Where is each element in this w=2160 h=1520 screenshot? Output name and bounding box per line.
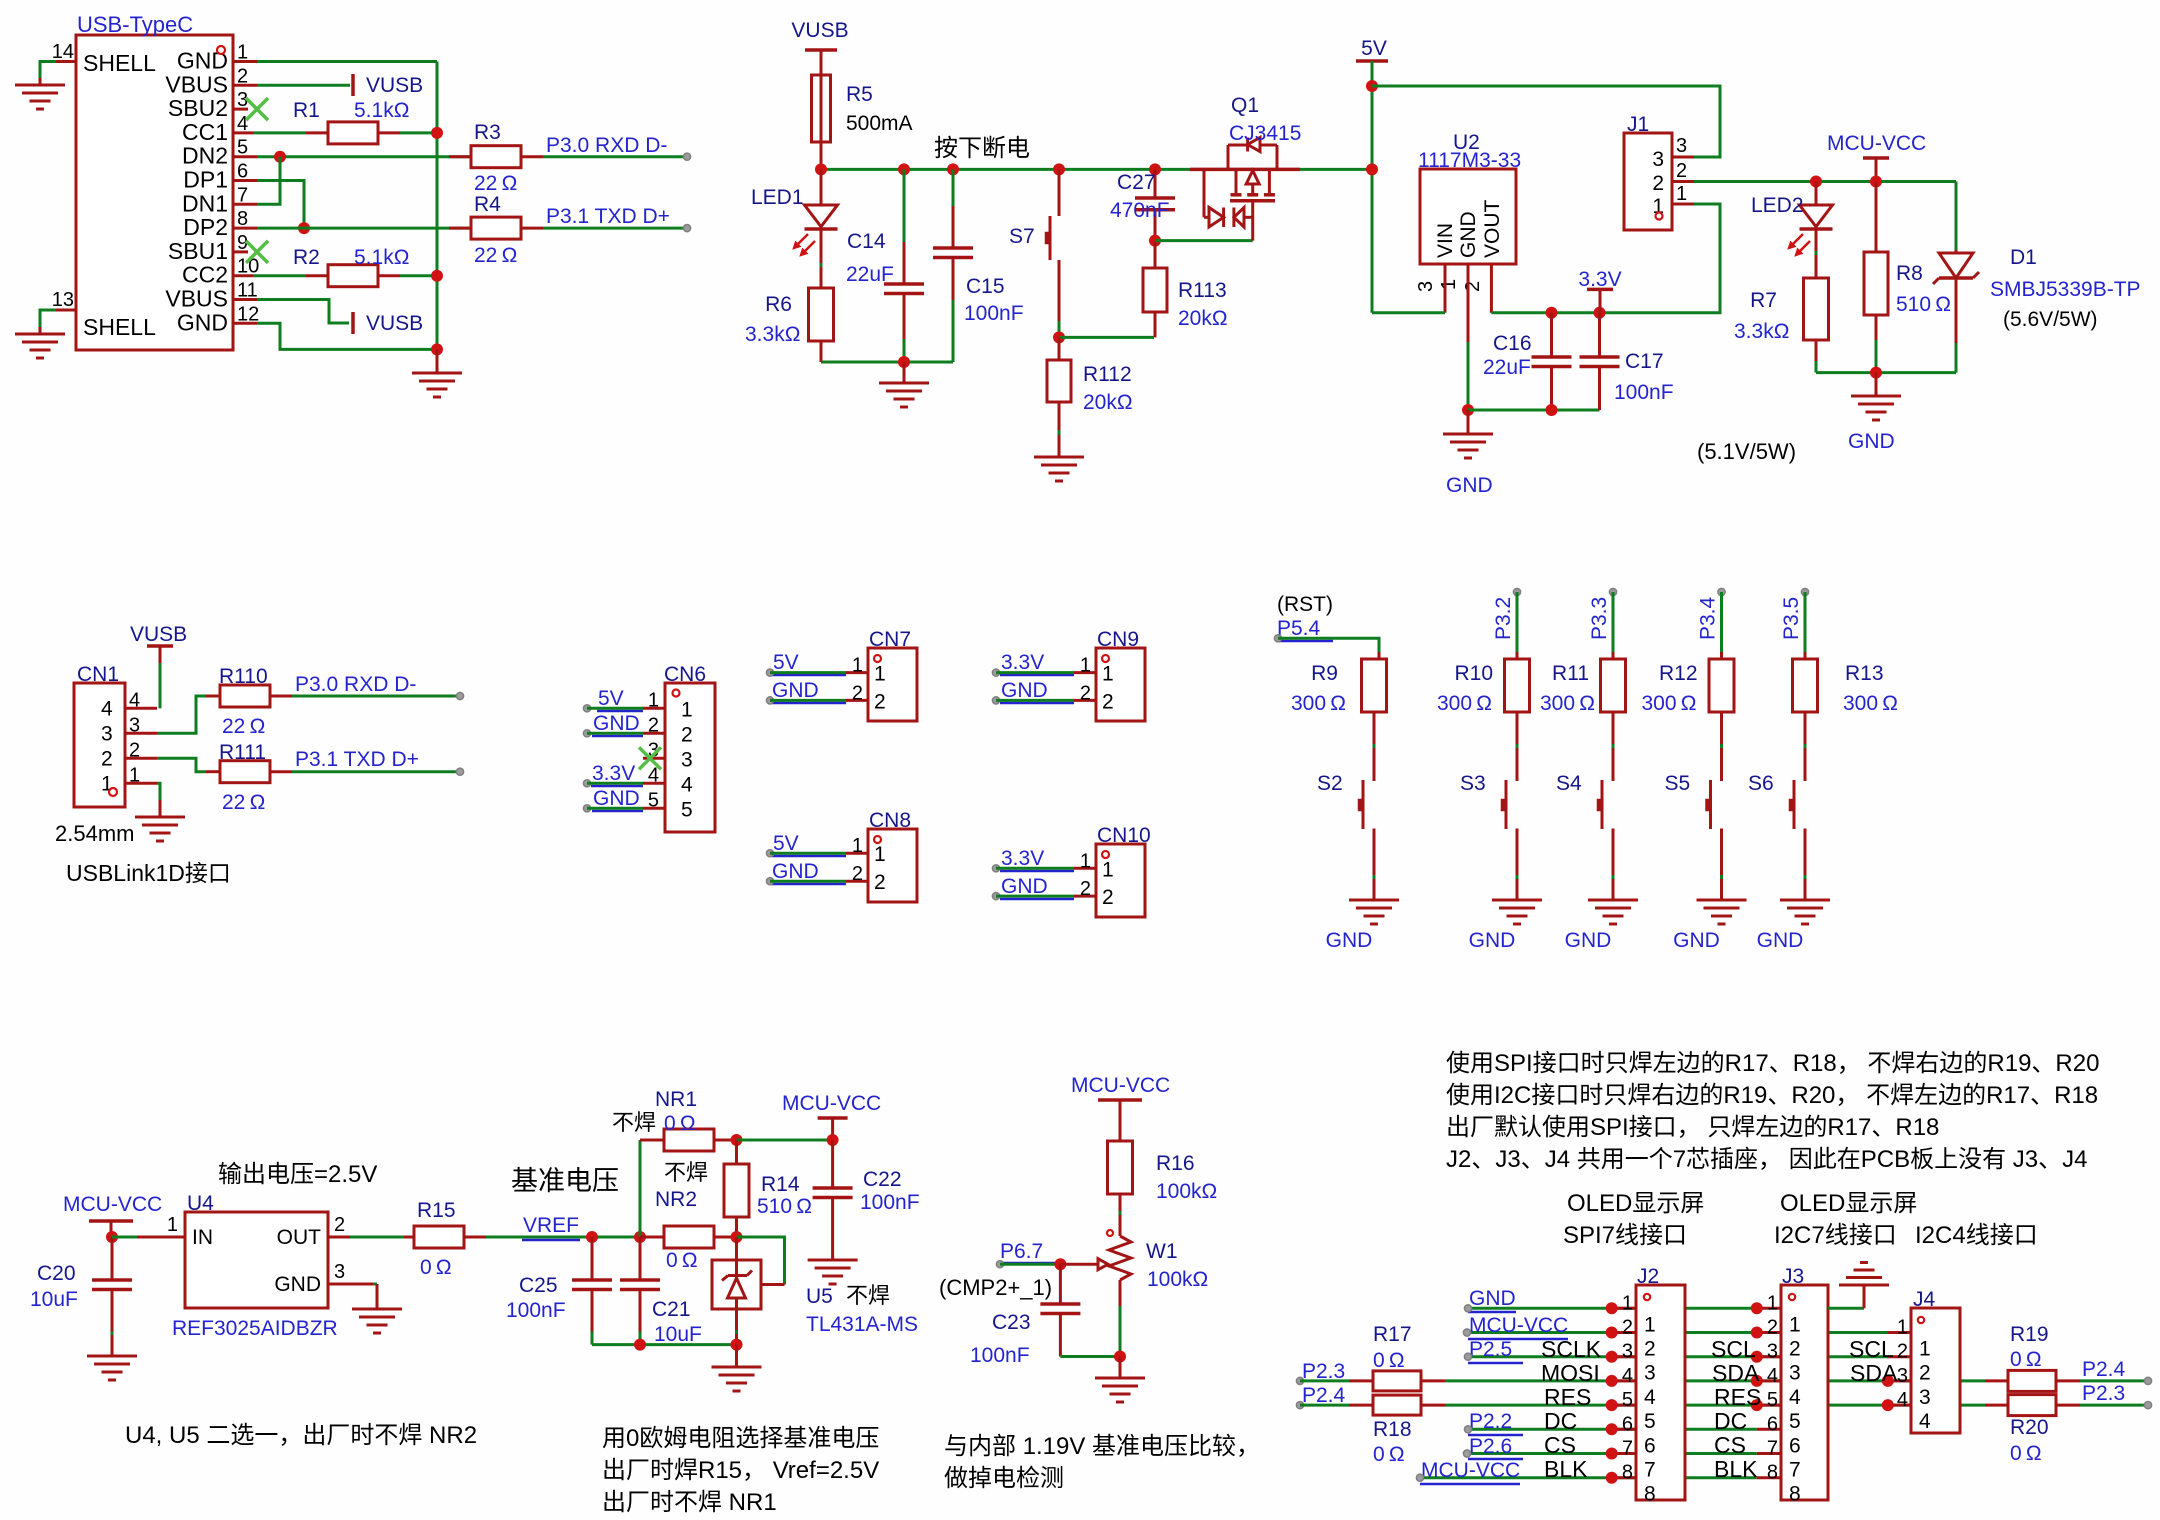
svg-text:2: 2 [1676, 160, 1687, 182]
svg-text:输出电压=2.5V: 输出电压=2.5V [218, 1161, 377, 1188]
svg-text:5.1kΩ: 5.1kΩ [354, 246, 409, 269]
svg-text:4: 4 [1897, 1389, 1908, 1411]
svg-text:SDA: SDA [1850, 1360, 1898, 1386]
svg-text:R3: R3 [474, 121, 501, 144]
svg-text:0 Ω: 0 Ω [664, 1112, 696, 1135]
ground below C22 [808, 1260, 858, 1284]
bottom rail C16/C17 [1468, 409, 1600, 412]
resistor R110 [206, 665, 292, 738]
svg-text:LED1: LED1 [751, 186, 804, 209]
wire CN8 pin1 [770, 852, 846, 855]
svg-text:100kΩ: 100kΩ [1147, 1268, 1208, 1291]
svg-text:3.3V: 3.3V [1001, 847, 1044, 870]
svg-text:5: 5 [1622, 1389, 1633, 1411]
wire R7 to bottom [1815, 340, 1818, 373]
svg-text:3: 3 [1415, 281, 1437, 292]
junction 3.3V at C16 [1546, 307, 1558, 319]
wire J1 pin2 to MCU-VCC rail [1694, 180, 1956, 183]
push switch S7 [1009, 169, 1059, 337]
capacitor C22 [813, 1140, 920, 1260]
svg-text:2: 2 [1080, 878, 1091, 900]
note 0-ohm selection line3 [602, 1489, 777, 1516]
svg-text:1: 1 [1622, 1292, 1633, 1314]
svg-text:300 Ω: 300 Ω [1291, 692, 1346, 715]
svg-text:U4: U4 [187, 1192, 214, 1215]
svg-text:3: 3 [101, 722, 113, 745]
wire CN7 pin2 [770, 699, 846, 702]
svg-text:1: 1 [1080, 655, 1091, 677]
svg-text:NR1: NR1 [655, 1088, 697, 1111]
svg-text:R110: R110 [219, 665, 268, 688]
resistor R113 [1143, 241, 1228, 338]
svg-text:3: 3 [1767, 1341, 1778, 1363]
svg-text:10uF: 10uF [654, 1323, 702, 1346]
transistor Q1 CJ3415 PMOS [1190, 94, 1301, 241]
wire P3.3 to R11 [1612, 592, 1615, 659]
wire U2 GND down [1467, 342, 1470, 410]
junction bottom at R8 [1870, 367, 1882, 379]
svg-text:470nF: 470nF [1110, 199, 1170, 222]
svg-text:CN10: CN10 [1097, 824, 1151, 847]
resistor R11 [1540, 659, 1626, 715]
svg-text:3: 3 [334, 1261, 345, 1283]
note 0-ohm selection line1 [602, 1425, 879, 1452]
connector J2 [1612, 1265, 1685, 1506]
capacitor C15 [933, 169, 1024, 362]
svg-text:C23: C23 [992, 1311, 1031, 1334]
net label GND at CN10 pin2 [992, 875, 1074, 900]
svg-text:用0欧姆电阻选择基准电压: 用0欧姆电阻选择基准电压 [602, 1425, 879, 1452]
junctions at J2 pins [1606, 1302, 1618, 1483]
switch S6 [1748, 712, 1830, 952]
wire CN7 pin1 [770, 671, 846, 674]
svg-text:4: 4 [1919, 1410, 1931, 1433]
connector CN9 [1074, 628, 1145, 721]
svg-text:3: 3 [1897, 1365, 1908, 1387]
svg-text:5V: 5V [598, 687, 624, 710]
IC U5 TL431A-MS [712, 1237, 918, 1345]
resistor R8 [1864, 182, 1951, 317]
ground below R8 [1848, 373, 1901, 453]
wire CN9 pin2 [996, 699, 1074, 702]
svg-text:不焊: 不焊 [846, 1283, 890, 1308]
no-connect X on pin 9 SBU1 [246, 241, 268, 263]
resistor NR2 [640, 1160, 737, 1272]
svg-text:4: 4 [681, 773, 693, 796]
IC U4 REF3025AIDBZR [137, 1192, 377, 1340]
svg-text:2: 2 [648, 714, 659, 736]
net label P2.6 at J2 pin7 [1463, 1435, 1523, 1459]
wire DN2 net (pin5 to R3) [257, 155, 471, 158]
svg-text:100nF: 100nF [506, 1299, 566, 1322]
wire R20 to P2.3 [2080, 1404, 2148, 1407]
wire pin6 DP1 jog down to DP2 [257, 181, 304, 229]
VUSB rail wire [821, 168, 1190, 171]
junction 3.3V at C17 [1594, 307, 1606, 319]
net label P5.4 [1274, 617, 1333, 642]
svg-text:DN2: DN2 [182, 143, 228, 169]
svg-text:3.3kΩ: 3.3kΩ [1734, 320, 1789, 343]
svg-text:1: 1 [129, 764, 140, 786]
svg-text:P3.4: P3.4 [1697, 596, 1720, 640]
5V trunk wire [1371, 61, 1374, 313]
svg-text:按下断电: 按下断电 [934, 135, 1030, 162]
svg-text:6: 6 [1644, 1434, 1656, 1457]
ground at USB-TypeC GND trunk [412, 349, 462, 397]
net label P2.2 at J2 pin6 [1464, 1410, 1523, 1435]
svg-text:P3.3: P3.3 [1588, 597, 1611, 640]
svg-text:C22: C22 [863, 1168, 902, 1191]
3.3V power flag [1578, 268, 1621, 313]
MCU-VCC power flag at U4 [63, 1193, 162, 1237]
net label P3.0 RXD D- [546, 134, 691, 160]
svg-text:P2.2: P2.2 [1469, 1410, 1512, 1433]
svg-text:22 Ω: 22 Ω [222, 791, 265, 814]
svg-text:2: 2 [129, 739, 140, 761]
svg-text:W1: W1 [1146, 1240, 1178, 1263]
wire P6.7 to wiper [1000, 1263, 1060, 1266]
svg-text:7: 7 [1622, 1438, 1633, 1460]
pin name labels J4 [1849, 1336, 1898, 1386]
svg-text:0 Ω: 0 Ω [666, 1249, 698, 1272]
junction MCU-VCC at R8 [1870, 176, 1882, 188]
svg-text:VUSB: VUSB [366, 74, 423, 97]
regulator U2 1117M3-33 [1415, 131, 1521, 342]
capacitor C21 [620, 1237, 702, 1346]
label 基准电压 [511, 1166, 619, 1196]
note 0-ohm selection line2 [602, 1457, 879, 1484]
wire CN6 pin4 [587, 782, 643, 785]
svg-text:5.1kΩ: 5.1kΩ [354, 99, 409, 122]
svg-text:GND: GND [1848, 430, 1895, 453]
label 2.54mm [55, 821, 134, 846]
svg-text:USBLink1D接口: USBLink1D接口 [66, 860, 231, 886]
wire P3.5 to R13 [1804, 592, 1807, 659]
svg-text:510 Ω: 510 Ω [1896, 293, 1951, 316]
svg-text:VUSB: VUSB [791, 19, 848, 42]
svg-text:1: 1 [648, 689, 659, 711]
net label GND at CN9 pin2 [992, 679, 1074, 704]
svg-text:3.3V: 3.3V [1001, 651, 1044, 674]
svg-text:CC2: CC2 [182, 262, 228, 288]
junction S7 bottom [1053, 331, 1065, 343]
svg-text:SCLK: SCLK [1541, 1336, 1602, 1362]
wire DP2 net (pin8 to R4) [257, 227, 471, 230]
net label P2.4 right [2082, 1358, 2152, 1385]
svg-text:DP1: DP1 [183, 167, 228, 193]
svg-text:100nF: 100nF [970, 1344, 1030, 1367]
svg-text:8: 8 [1789, 1483, 1801, 1506]
svg-text:VOUT: VOUT [1481, 199, 1504, 258]
svg-text:R14: R14 [761, 1173, 800, 1196]
ground below U5 [712, 1345, 762, 1391]
svg-text:R5: R5 [846, 83, 873, 106]
svg-text:P2.6: P2.6 [1469, 1435, 1512, 1458]
junction 5V trunk rail [1366, 163, 1378, 175]
svg-text:VIN: VIN [1434, 223, 1457, 258]
svg-text:2: 2 [874, 690, 886, 713]
svg-text:1: 1 [874, 843, 886, 866]
svg-text:5: 5 [1789, 1410, 1801, 1433]
svg-text:2: 2 [874, 871, 886, 894]
svg-text:OUT: OUT [277, 1226, 322, 1249]
svg-text:3.3kΩ: 3.3kΩ [745, 323, 800, 346]
svg-text:GND: GND [1457, 211, 1480, 258]
net label 3.3V at CN10 pin1 [992, 847, 1074, 872]
junction VREF at C21 [634, 1231, 646, 1243]
svg-text:6: 6 [1622, 1413, 1633, 1435]
svg-text:MCU-VCC: MCU-VCC [1827, 132, 1926, 155]
junction VREF at C25 [586, 1231, 598, 1243]
svg-text:出厂时不焊 NR1: 出厂时不焊 NR1 [602, 1489, 777, 1516]
label 按下断电 [934, 135, 1030, 162]
net label P3.1 TXD D+ (CN1) [295, 748, 464, 775]
inverted ground above J3 [1839, 1263, 1889, 1309]
svg-text:SCL: SCL [1711, 1336, 1756, 1362]
svg-text:0 Ω: 0 Ω [2010, 1442, 2042, 1465]
svg-text:R6: R6 [765, 293, 792, 316]
svg-text:22 Ω: 22 Ω [474, 244, 517, 267]
junction trunk bottom [431, 343, 443, 355]
svg-text:MCU-VCC: MCU-VCC [782, 1092, 881, 1115]
svg-text:1: 1 [1767, 1292, 1778, 1314]
svg-text:做掉电检测: 做掉电检测 [944, 1465, 1064, 1492]
svg-text:J4: J4 [1913, 1288, 1936, 1311]
wire CN6 pin1 [587, 707, 643, 710]
svg-text:3: 3 [1919, 1386, 1931, 1409]
svg-text:8: 8 [1622, 1462, 1633, 1484]
fuse R5 500mA [812, 75, 913, 142]
label OLED SPI heading [1563, 1190, 1704, 1249]
wire CN1 pin1 to ground [157, 783, 160, 817]
svg-text:I2C7线接口: I2C7线接口 [1774, 1222, 1897, 1249]
svg-text:GND: GND [593, 787, 640, 810]
svg-text:5V: 5V [773, 651, 799, 674]
svg-text:R12: R12 [1659, 662, 1698, 685]
svg-text:R9: R9 [1311, 662, 1338, 685]
note SPI/I2C line3 [1446, 1114, 1939, 1141]
svg-text:7: 7 [1767, 1438, 1778, 1460]
svg-text:2: 2 [852, 863, 863, 885]
bottom rail VREF caps [592, 1343, 737, 1346]
capacitor C17 [1580, 313, 1674, 410]
svg-text:C17: C17 [1625, 350, 1664, 373]
note SPI/I2C line1 [1446, 1050, 2099, 1077]
svg-text:100nF: 100nF [1614, 381, 1674, 404]
note compare 1.19V line2 [944, 1465, 1064, 1492]
svg-text:Q1: Q1 [1231, 94, 1259, 117]
wire CN1 pin3 to R110 [157, 696, 206, 733]
svg-text:1: 1 [1438, 279, 1460, 290]
switch S2 [1317, 712, 1399, 952]
junction rail at S7 [1053, 163, 1065, 175]
pin name labels J3 [1711, 1336, 1761, 1482]
wire R16 to W1 [1119, 1194, 1122, 1236]
net label MCU-VCC at J2 pin8 [1416, 1459, 1520, 1484]
junction rail at C15 [947, 163, 959, 175]
svg-text:OLED显示屏: OLED显示屏 [1780, 1190, 1917, 1217]
svg-text:VUSB: VUSB [366, 312, 423, 335]
wire CN8 pin2 [770, 880, 846, 883]
switch S3 [1460, 712, 1542, 952]
svg-text:P3.2: P3.2 [1492, 597, 1515, 640]
net label P3.3 [1588, 588, 1617, 640]
svg-text:DN1: DN1 [182, 190, 228, 216]
wire VREF net [486, 1236, 640, 1239]
svg-text:GND: GND [1326, 929, 1373, 952]
net label 3.3V at CN6 pin4 [583, 762, 643, 787]
svg-text:500mA: 500mA [846, 112, 913, 135]
svg-text:2: 2 [101, 747, 113, 770]
wire LED2 to R7 [1815, 229, 1818, 278]
note SPI/I2C line4 [1446, 1146, 2087, 1173]
svg-text:1: 1 [1644, 1313, 1656, 1336]
svg-text:2: 2 [1652, 172, 1664, 195]
svg-text:R8: R8 [1896, 262, 1923, 285]
wire P5.4 to R9 [1278, 638, 1379, 659]
junctions at J3 pins 1-5 [1751, 1302, 1763, 1411]
note U4 U5 choice [125, 1422, 477, 1449]
wire 5V to J1 pin3 [1372, 86, 1720, 157]
svg-text:DP2: DP2 [183, 214, 228, 240]
svg-text:不焊: 不焊 [664, 1160, 708, 1185]
label (CMP2+_1) [939, 1275, 1052, 1300]
wire R8 to bottom [1875, 315, 1878, 373]
junction 5V trunk top [1366, 80, 1378, 92]
wire R5 to rail [820, 142, 823, 169]
svg-text:GND: GND [1565, 929, 1612, 952]
junction P6.7 C23 [1054, 1258, 1066, 1270]
svg-text:2.54mm: 2.54mm [55, 821, 134, 846]
switch S4 [1556, 712, 1638, 952]
svg-text:GND: GND [274, 1273, 321, 1296]
VUSB power flag (pin2) [353, 74, 423, 97]
bottom rail LED2/R8/D1 [1816, 371, 1956, 374]
junction NR1 R14 [731, 1134, 743, 1146]
svg-text:CN6: CN6 [664, 663, 706, 686]
svg-text:SPI7线接口: SPI7线接口 [1563, 1222, 1687, 1249]
junction DN2-DN1 [274, 151, 286, 163]
junction W1 ground [1114, 1351, 1126, 1363]
svg-text:4: 4 [1767, 1365, 1778, 1387]
net label GND at J2 pin1 [1464, 1287, 1516, 1312]
svg-text:REF3025AIDBZR: REF3025AIDBZR [172, 1317, 338, 1340]
wire CN1 pin2 to R111 [157, 758, 206, 771]
svg-text:I2C4线接口: I2C4线接口 [1915, 1222, 2038, 1249]
svg-text:使用I2C接口时只焊右边的R19、R20， 不焊左边的R1: 使用I2C接口时只焊右边的R19、R20， 不焊左边的R17、R18 [1446, 1082, 2098, 1109]
net label P3.2 [1492, 588, 1521, 640]
svg-text:J3: J3 [1782, 1265, 1804, 1288]
svg-text:3: 3 [1789, 1362, 1801, 1385]
net label GND at CN7 pin2 [766, 679, 846, 704]
svg-text:R112: R112 [1083, 363, 1132, 386]
svg-text:S3: S3 [1460, 772, 1486, 795]
junction bottom rail C16 [1546, 404, 1558, 416]
svg-text:SBU1: SBU1 [168, 238, 228, 264]
net label P3.5 [1780, 588, 1809, 640]
svg-text:BLK: BLK [1544, 1456, 1588, 1482]
resistor R9 [1291, 659, 1387, 715]
svg-text:S2: S2 [1317, 772, 1343, 795]
capacitor C14 [846, 169, 924, 362]
wire R6 to bottom rail [820, 341, 823, 362]
svg-text:P2.5: P2.5 [1469, 1338, 1512, 1361]
svg-text:USB-TypeC: USB-TypeC [77, 12, 193, 37]
MCU-VCC power flag at NR1 [782, 1092, 881, 1140]
net label GND at CN6 pin2 [583, 712, 643, 737]
resistor R18 [1349, 1395, 1445, 1466]
svg-text:0 Ω: 0 Ω [2010, 1348, 2042, 1371]
wire MCU-VCC to U4 IN [112, 1236, 137, 1239]
svg-text:RES: RES [1544, 1384, 1591, 1410]
connector J4 [1888, 1288, 1960, 1433]
svg-text:P3.0 RXD D-: P3.0 RXD D- [295, 673, 416, 696]
net label 3.3V at CN9 pin1 [992, 651, 1074, 676]
svg-text:1: 1 [874, 663, 886, 686]
svg-text:R19: R19 [2010, 1323, 2049, 1346]
5V power flag [1356, 37, 1388, 61]
svg-text:2: 2 [1919, 1362, 1931, 1385]
net label P2.5 at J2 pin3 [1464, 1338, 1523, 1363]
label OLED I2C heading [1774, 1190, 1917, 1249]
svg-text:1: 1 [1102, 858, 1114, 881]
net label P2.4 left [1296, 1384, 1345, 1409]
svg-text:100kΩ: 100kΩ [1156, 1180, 1217, 1203]
svg-text:P6.7: P6.7 [1000, 1240, 1043, 1263]
net label P6.7 [996, 1240, 1056, 1268]
wire LED1 to R6 [820, 229, 823, 288]
svg-text:基准电压: 基准电压 [511, 1166, 619, 1196]
junction bottom rail C21 [634, 1339, 646, 1351]
wire P2.3 to R17 [1300, 1379, 1349, 1382]
ground below C14 [879, 362, 929, 407]
svg-text:1: 1 [1102, 663, 1114, 686]
svg-text:22 Ω: 22 Ω [222, 715, 265, 738]
resistor R13 [1793, 659, 1898, 715]
svg-text:IN: IN [192, 1226, 213, 1249]
svg-text:0 Ω: 0 Ω [1373, 1349, 1405, 1372]
svg-text:BLK: BLK [1714, 1456, 1758, 1482]
svg-text:GND: GND [1001, 875, 1048, 898]
svg-text:P2.3: P2.3 [2082, 1382, 2125, 1405]
svg-text:S4: S4 [1556, 772, 1582, 795]
net label P2.3 left [1296, 1360, 1345, 1385]
wire R111 to port P3.1 [292, 770, 460, 773]
svg-text:7: 7 [1644, 1459, 1656, 1482]
svg-text:OLED显示屏: OLED显示屏 [1567, 1190, 1704, 1217]
wire R3 to port P3.0 [543, 155, 687, 158]
svg-text:3: 3 [681, 748, 693, 771]
svg-text:1: 1 [852, 835, 863, 857]
svg-text:VREF: VREF [523, 1214, 579, 1237]
svg-text:R1: R1 [293, 99, 320, 122]
svg-text:100nF: 100nF [860, 1191, 920, 1214]
svg-text:300 Ω: 300 Ω [1437, 692, 1492, 715]
connector J3 [1757, 1265, 1828, 1506]
junction C27-R113-gate [1149, 235, 1161, 247]
net label MCU-VCC at J2 pin2 [1463, 1314, 1568, 1339]
wire pin10 CC2 to R2 [253, 274, 306, 277]
wire C23 bottom to W1 bottom [1060, 1355, 1120, 1358]
junction R2-trunk [431, 270, 443, 282]
junction bottom rail C14 [898, 356, 910, 368]
net label 5V at CN6 pin1 [583, 687, 643, 712]
wire CN10 pin1 [996, 867, 1074, 870]
svg-text:5: 5 [648, 789, 659, 811]
svg-text:2: 2 [1789, 1338, 1801, 1361]
label 5.1V/5W [1697, 439, 1796, 464]
capacitor C23 [970, 1264, 1080, 1367]
